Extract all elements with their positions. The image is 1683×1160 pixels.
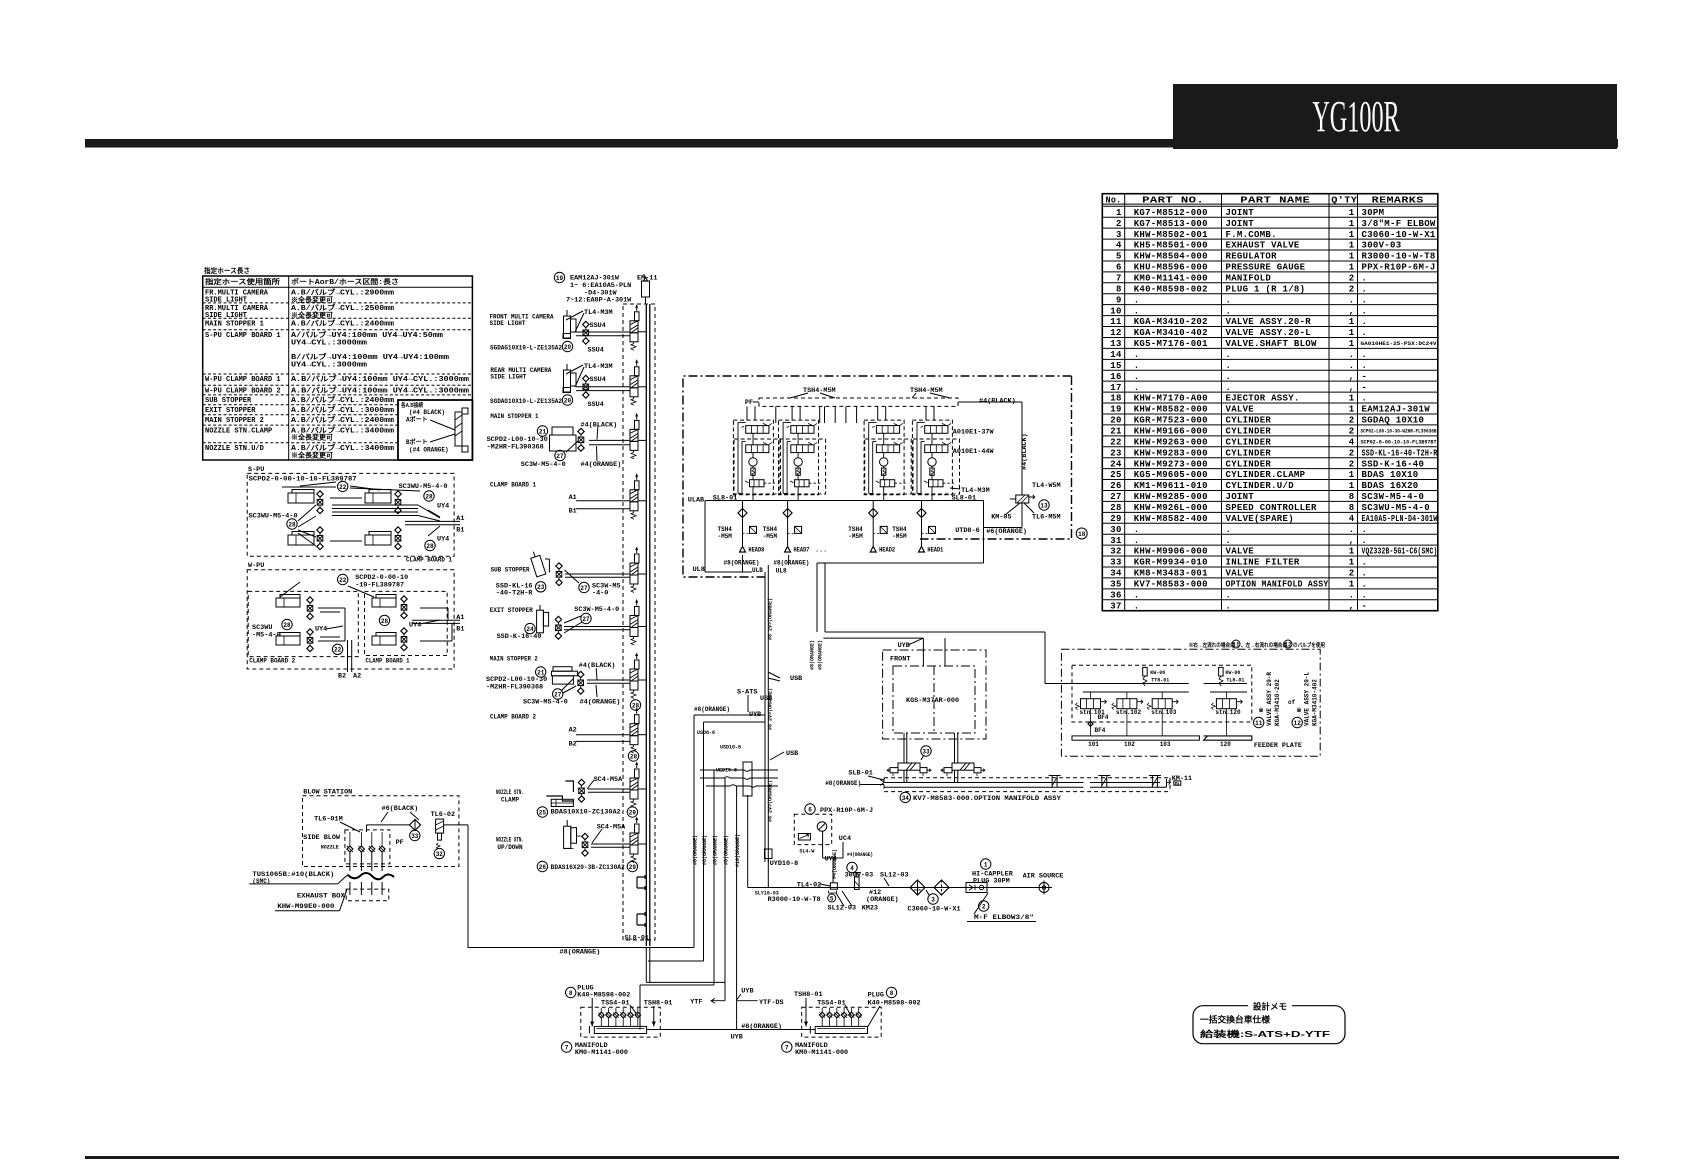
svg-text:KGA-M3410-402: KGA-M3410-402 <box>1312 679 1319 726</box>
filter 33 <box>410 819 421 830</box>
svg-text:.: . <box>1362 284 1368 294</box>
svg-text:CYLINDER: CYLINDER <box>1226 459 1272 469</box>
svg-text:A2: A2 <box>569 727 577 735</box>
svg-text:1: 1 <box>1349 470 1355 480</box>
svg-text:KG7-M8513-000: KG7-M8513-000 <box>1134 219 1208 229</box>
S-PU cylinders left <box>288 493 314 503</box>
svg-text:PPX-R10P-6M-J: PPX-R10P-6M-J <box>820 807 873 815</box>
svg-text:UP/DOWN: UP/DOWN <box>497 844 523 851</box>
svg-text:K40-M8598-002: K40-M8598-002 <box>577 991 630 999</box>
exhaust lines <box>349 852 351 871</box>
svg-text:UYB: UYB <box>741 988 753 996</box>
wire risers to manifolds <box>693 715 695 948</box>
svg-text:27: 27 <box>554 691 562 698</box>
svg-text:KHW-M9166-000: KHW-M9166-000 <box>1134 427 1208 437</box>
svg-text:.: . <box>1226 536 1232 546</box>
feeder valve stn.102 <box>1117 699 1137 709</box>
svg-text:指定ホース使用箇所: 指定ホース使用箇所 <box>205 277 280 286</box>
svg-text:#4(BLACK): #4(BLACK) <box>579 662 616 670</box>
svg-text:#8(ORANGE): #8(ORANGE) <box>810 640 816 670</box>
svg-text:ULB: ULB <box>752 567 763 574</box>
svg-text:25: 25 <box>539 809 547 816</box>
svg-text:CLAMP BOARD 1: CLAMP BOARD 1 <box>366 657 410 664</box>
svg-text:※右→左流れの場合は: ※右→左流れの場合は <box>1189 641 1235 649</box>
svg-text:34: 34 <box>1110 569 1122 579</box>
svg-text:20: 20 <box>1110 416 1121 426</box>
svg-text:KM23: KM23 <box>862 905 878 913</box>
svg-text:33: 33 <box>1110 558 1121 568</box>
svg-text:UYB: UYB <box>898 642 910 650</box>
svg-text:、左→右流れの場合は: 、左→右流れの場合は <box>1241 641 1287 649</box>
svg-text:SL8-01: SL8-01 <box>713 494 737 502</box>
svg-text:KGS-M37AR-000: KGS-M37AR-000 <box>906 697 959 705</box>
svg-text:28: 28 <box>283 622 291 629</box>
svg-text:Q'TY: Q'TY <box>1331 196 1357 206</box>
svg-text:TL6-02: TL6-02 <box>431 811 455 819</box>
svg-text:SC3WU-M5-4-0: SC3WU-M5-4-0 <box>1362 503 1430 513</box>
svg-text:32: 32 <box>1110 547 1121 557</box>
svg-text:.: . <box>1362 590 1368 600</box>
svg-text:B1: B1 <box>456 527 464 535</box>
svg-text:29: 29 <box>629 864 637 871</box>
svg-text:PPX-R10P-6M-J: PPX-R10P-6M-J <box>1362 263 1436 273</box>
svg-text:KV7-M8583-000: KV7-M8583-000 <box>1134 580 1208 590</box>
svg-text:-10-FL389787: -10-FL389787 <box>355 581 404 589</box>
M-F elbow label 2 <box>979 901 989 911</box>
svg-text:C3060-10-W-X1: C3060-10-W-X1 <box>1362 230 1436 240</box>
blank station stubs <box>637 875 645 890</box>
svg-text:.: . <box>1349 525 1355 535</box>
svg-text:3: 3 <box>931 896 935 903</box>
svg-text:-M2HR-FL390368: -M2HR-FL390368 <box>486 683 543 691</box>
svg-text:.: . <box>1362 394 1368 404</box>
svg-text:KGA-M3410-202: KGA-M3410-202 <box>1134 317 1208 327</box>
feeder inner dashed box <box>1072 665 1252 722</box>
svg-text:,: , <box>1349 372 1355 382</box>
pressure gauge box 6 <box>805 804 815 814</box>
svg-text:3: 3 <box>1116 230 1122 240</box>
feeder valve stn.101 <box>1081 699 1101 709</box>
svg-text:.: . <box>1134 601 1140 611</box>
svg-text:101: 101 <box>1088 741 1099 748</box>
head area dash-dot boundary <box>683 376 1072 577</box>
feeder bus <box>1072 683 1189 685</box>
svg-text:.: . <box>1362 569 1368 579</box>
svg-text:Aポート: Aポート <box>406 416 428 424</box>
svg-text:11: 11 <box>1232 641 1240 648</box>
svg-text:NOZZLE STN.CLAMP: NOZZLE STN.CLAMP <box>205 427 272 435</box>
svg-text:TL8-01: TL8-01 <box>1226 678 1244 684</box>
svg-text:※全長変更可: ※全長変更可 <box>291 450 333 459</box>
svg-text:TUS1065B:#10(BLACK): TUS1065B:#10(BLACK) <box>252 871 334 878</box>
svg-text:17: 17 <box>1110 383 1121 393</box>
svg-text:28: 28 <box>630 753 638 760</box>
svg-text:CYLINDER: CYLINDER <box>1226 416 1272 426</box>
svg-text:.: . <box>1226 306 1232 316</box>
svg-text:SGDAG10X10-L-ZE135A2: SGDAG10X10-L-ZE135A2 <box>490 398 562 405</box>
head valve group 2 <box>779 420 819 495</box>
svg-text:HEAD1: HEAD1 <box>927 547 943 554</box>
FRONT box <box>883 650 986 739</box>
svg-text:25: 25 <box>1110 470 1121 480</box>
svg-text:-M5M: -M5M <box>892 533 907 540</box>
A/B port legend inset <box>398 400 472 460</box>
svg-text:PLUG: PLUG <box>868 991 884 999</box>
valve station V-EXITSTP <box>630 616 638 628</box>
svg-text:KG5-M7176-001: KG5-M7176-001 <box>1134 339 1208 349</box>
svg-text:29: 29 <box>1110 514 1121 524</box>
svg-text:※全長変更可: ※全長変更可 <box>291 433 333 442</box>
svg-text:PF: PF <box>745 399 753 407</box>
svg-text:S-ATS: S-ATS <box>737 689 757 697</box>
svg-text:#4(BLACK): #4(BLACK) <box>581 422 618 430</box>
svg-text:#4(ORANGE): #4(ORANGE) <box>847 852 873 858</box>
svg-text:1: 1 <box>1349 230 1355 240</box>
svg-text:KHW-M8582-400: KHW-M8582-400 <box>1134 514 1208 524</box>
svg-text:KHW-M9263-000: KHW-M9263-000 <box>1134 437 1208 447</box>
svg-text:2: 2 <box>1349 448 1355 458</box>
svg-text:-40-T2H-R: -40-T2H-R <box>496 590 534 598</box>
svg-text:USD8-6: USD8-6 <box>697 730 715 736</box>
svg-text:.: . <box>1226 350 1232 360</box>
svg-text:1: 1 <box>1349 339 1355 349</box>
svg-text:-M5M: -M5M <box>763 533 778 540</box>
svg-text:#8(ORANGE): #8(ORANGE) <box>724 835 730 865</box>
svg-text:26: 26 <box>539 864 547 871</box>
svg-text:...: ... <box>815 547 827 555</box>
svg-text:KGA-M3410-402: KGA-M3410-402 <box>1134 328 1208 338</box>
exhaust valve 300V-03 <box>847 862 857 872</box>
svg-text:27: 27 <box>580 585 588 592</box>
svg-text:SGDAQ 10X10: SGDAQ 10X10 <box>1362 416 1425 426</box>
svg-text:1: 1 <box>1349 558 1355 568</box>
svg-text:11: 11 <box>1255 720 1263 727</box>
svg-text:A.B/バルブ→UY4:100mm UY4→CYL.:300: A.B/バルブ→UY4:100mm UY4→CYL.:3000mm <box>291 374 469 384</box>
svg-text:3/8"M-F ELBOW: 3/8"M-F ELBOW <box>1362 219 1436 229</box>
svg-text:BDAS 10X10: BDAS 10X10 <box>1362 470 1419 480</box>
svg-text:21: 21 <box>539 428 547 435</box>
svg-text:MAIN STOPPER 1: MAIN STOPPER 1 <box>490 413 538 420</box>
head valve group 1 <box>733 420 773 495</box>
svg-text:BF4: BF4 <box>1095 727 1106 734</box>
svg-text:TL6-01M: TL6-01M <box>314 815 343 823</box>
svg-text:VQZ332B-5G1-C6(SMC): VQZ332B-5G1-C6(SMC) <box>1362 547 1438 557</box>
svg-text:UY4: UY4 <box>409 622 421 630</box>
air source symbol <box>1039 883 1049 893</box>
lower distribution wires <box>468 947 695 949</box>
svg-text:30PM: 30PM <box>1362 208 1385 218</box>
svg-text:SSU4: SSU4 <box>588 401 604 409</box>
svg-text:B1: B1 <box>456 626 464 634</box>
svg-text:※全長変更可: ※全長変更可 <box>291 295 333 304</box>
valve station V-MAINSTP2 <box>630 669 638 681</box>
svg-text:#8(ORANGE): #8(ORANGE) <box>724 560 760 567</box>
svg-text:SL4-W: SL4-W <box>799 848 814 854</box>
svg-text:MAIN STOPPER 2: MAIN STOPPER 2 <box>205 417 264 425</box>
svg-text:YTF-DS: YTF-DS <box>759 999 783 1007</box>
svg-text:EXHAUST BOX: EXHAUST BOX <box>297 893 346 901</box>
svg-text:4: 4 <box>1349 437 1355 447</box>
svg-text:.: . <box>1226 590 1232 600</box>
svg-text:.: . <box>1349 590 1355 600</box>
valve station V-FRONTCAM <box>630 321 638 333</box>
svg-text:USB: USB <box>760 695 772 703</box>
svg-text:VALVE: VALVE <box>1226 569 1255 579</box>
svg-text:1: 1 <box>1349 547 1355 557</box>
svg-text:.: . <box>1226 601 1232 611</box>
hi-cappler plug <box>981 859 991 869</box>
manifold dashed outline <box>623 304 655 940</box>
svg-text:22: 22 <box>334 647 342 654</box>
svg-text:HEAD7: HEAD7 <box>794 547 810 554</box>
svg-text:CLAMP BOARD 1: CLAMP BOARD 1 <box>490 482 536 489</box>
svg-text:KW-06: KW-06 <box>1225 670 1240 676</box>
S-ATS riser bundle <box>764 572 766 862</box>
svg-text:TL4-02: TL4-02 <box>797 882 821 890</box>
svg-text:31: 31 <box>1110 536 1122 546</box>
svg-text:#10(ORANGE): #10(ORANGE) <box>735 834 741 867</box>
svg-text:FEEDER PLATE: FEEDER PLATE <box>1254 742 1302 749</box>
svg-text:BF4: BF4 <box>1098 714 1109 721</box>
svg-text:VALVE.SHAFT BLOW: VALVE.SHAFT BLOW <box>1226 339 1318 349</box>
svg-text:22: 22 <box>339 577 347 584</box>
KW-06 TT8-01 <box>1143 667 1148 676</box>
option manifold solid lines <box>1090 782 1160 784</box>
svg-text:#8(ORANGE): #8(ORANGE) <box>818 640 824 670</box>
svg-text:MAIN STOPPER 1: MAIN STOPPER 1 <box>205 321 264 329</box>
memo box <box>1193 1006 1345 1044</box>
feeder valve stn.103 <box>1152 699 1172 709</box>
svg-text:.: . <box>1226 295 1232 305</box>
svg-text:.: . <box>1134 306 1140 316</box>
svg-text:-4-0: -4-0 <box>592 590 608 598</box>
svg-text:UY4→CYL.:3000mm: UY4→CYL.:3000mm <box>291 362 367 370</box>
svg-text:.: . <box>1226 383 1232 393</box>
svg-text:CYLINDER.CLAMP: CYLINDER.CLAMP <box>1226 470 1306 480</box>
svg-text:35: 35 <box>1110 580 1121 590</box>
blow nozzle 3 <box>369 846 375 852</box>
svg-text:A.B/バルブ→CYL.:2400mm: A.B/バルブ→CYL.:2400mm <box>291 395 394 405</box>
svg-text:ポートAorB/ホース区間:長さ: ポートAorB/ホース区間:長さ <box>291 277 399 287</box>
svg-text:KGR-M7523-000: KGR-M7523-000 <box>1134 416 1208 426</box>
svg-text:W-PU CLAMP BOARD 1: W-PU CLAMP BOARD 1 <box>205 376 281 384</box>
svg-text:SCP02-L00-10-30-W2HR-FL39036B: SCP02-L00-10-30-W2HR-FL39036B <box>1361 429 1437 435</box>
svg-text:PF: PF <box>396 839 404 847</box>
svg-text:一括交換台車仕様: 一括交換台車仕様 <box>1200 1015 1270 1025</box>
svg-text:1: 1 <box>1349 263 1355 273</box>
svg-text:UL8: UL8 <box>776 568 787 575</box>
filter + HEAD8 <box>738 509 747 518</box>
title bar rule <box>85 139 1618 148</box>
svg-text:22: 22 <box>1110 437 1121 447</box>
svg-text:,: , <box>1349 601 1355 611</box>
svg-text:5: 5 <box>830 895 834 902</box>
svg-text:SSD-K-16-40: SSD-K-16-40 <box>497 633 542 641</box>
svg-text:SC3W-M5-4-0: SC3W-M5-4-0 <box>1362 492 1425 502</box>
svg-text:1: 1 <box>1349 208 1355 218</box>
svg-text:7~12:EA8P-A-301W: 7~12:EA8P-A-301W <box>566 297 632 305</box>
svg-text:※: ※ <box>1297 706 1302 714</box>
svg-text:.: . <box>1134 295 1140 305</box>
svg-text:4: 4 <box>1116 241 1122 251</box>
svg-text:KHU-M8596-000: KHU-M8596-000 <box>1134 263 1208 273</box>
air source main line <box>748 887 1038 889</box>
svg-text:of: of <box>1288 699 1296 706</box>
svg-text:28: 28 <box>1110 503 1121 513</box>
svg-text:#8(ORANGE): #8(ORANGE) <box>702 835 708 865</box>
svg-text:SSU4: SSU4 <box>590 322 606 330</box>
svg-text:UL8: UL8 <box>693 566 705 574</box>
svg-text:EXHAUST VALVE: EXHAUST VALVE <box>1226 241 1300 251</box>
svg-text:1: 1 <box>1349 219 1355 229</box>
svg-text:15: 15 <box>1110 361 1121 371</box>
svg-text:33: 33 <box>411 833 419 840</box>
svg-text:11: 11 <box>1110 317 1122 327</box>
feeder assy outer dashed box <box>1061 649 1320 756</box>
svg-text:SSU4: SSU4 <box>588 347 604 355</box>
svg-text:YG100R: YG100R <box>1312 91 1400 141</box>
svg-text:120: 120 <box>1220 741 1231 748</box>
svg-text:32: 32 <box>436 851 444 858</box>
svg-text:.: . <box>1134 383 1140 393</box>
svg-text:SIDE LIGHT: SIDE LIGHT <box>490 374 526 381</box>
crossing bus <box>743 762 752 796</box>
svg-text:.: . <box>1134 590 1140 600</box>
svg-text:-: - <box>1362 372 1368 382</box>
svg-text:CLAMP BOARD 1: CLAMP BOARD 1 <box>406 557 452 564</box>
bottom rule <box>85 1156 1619 1159</box>
svg-text:34: 34 <box>902 795 910 802</box>
svg-text:#8(ORANGE): #8(ORANGE) <box>825 780 861 787</box>
svg-text:JOINT: JOINT <box>1226 492 1255 502</box>
svg-text:.: . <box>1134 536 1140 546</box>
svg-text:1: 1 <box>1349 580 1355 590</box>
svg-text:23: 23 <box>537 584 545 591</box>
svg-text:103: 103 <box>1160 741 1171 748</box>
svg-text:-: - <box>1362 383 1368 393</box>
svg-text:A010E1-44W: A010E1-44W <box>953 448 995 456</box>
svg-text:A2: A2 <box>353 673 361 681</box>
svg-text:#8(ORANGE): #8(ORANGE) <box>713 835 719 865</box>
svg-text:27: 27 <box>556 453 564 460</box>
svg-text:SPEED CONTROLLER: SPEED CONTROLLER <box>1226 503 1318 513</box>
ejector assembly label 19 <box>554 272 564 282</box>
svg-text:KM8-M3483-001: KM8-M3483-001 <box>1134 569 1208 579</box>
svg-text:-M2HR-FL390368: -M2HR-FL390368 <box>487 444 544 452</box>
svg-text:USB: USB <box>790 675 802 683</box>
svg-text:13: 13 <box>1040 502 1048 509</box>
svg-text:KHW-M926L-000: KHW-M926L-000 <box>1134 503 1208 513</box>
svg-text:給装機:S-ATS+D-YTF: 給装機:S-ATS+D-YTF <box>1200 1029 1330 1039</box>
svg-text:A010E1-37W: A010E1-37W <box>953 429 995 437</box>
svg-text:KHW-M8504-000: KHW-M8504-000 <box>1134 252 1208 262</box>
svg-text:#6(BLACK): #6(BLACK) <box>382 805 419 813</box>
svg-text:.: . <box>1362 525 1368 535</box>
svg-text:CYLINDER: CYLINDER <box>1226 437 1272 447</box>
svg-text:7: 7 <box>1116 273 1122 283</box>
svg-text:TSH8-01: TSH8-01 <box>794 991 823 999</box>
svg-text:#8 2V>(ORANGE): #8 2V>(ORANGE) <box>768 598 774 640</box>
svg-text:CYLINDER.U/D: CYLINDER.U/D <box>1226 481 1295 491</box>
svg-text:2: 2 <box>1349 273 1355 283</box>
svg-text:1: 1 <box>1349 481 1355 491</box>
svg-text:.: . <box>1349 361 1355 371</box>
feeder plate <box>1072 736 1199 740</box>
svg-text:,: , <box>1349 536 1355 546</box>
svg-text:YTF: YTF <box>690 998 702 1006</box>
svg-text:NOZZLE STN.: NOZZLE STN. <box>496 789 524 796</box>
svg-text:UC4: UC4 <box>839 835 851 843</box>
svg-text:PART NO.: PART NO. <box>1142 196 1204 206</box>
filter + HEAD7 <box>783 509 792 518</box>
svg-text:SSU4: SSU4 <box>590 376 606 384</box>
svg-text:B2: B2 <box>338 673 346 681</box>
svg-text:W-PU: W-PU <box>248 562 264 570</box>
svg-text:.: . <box>1362 317 1368 327</box>
svg-text:8: 8 <box>1116 284 1122 294</box>
svg-text:12: 12 <box>1284 641 1292 648</box>
svg-text:KH5-M8501-000: KH5-M8501-000 <box>1134 241 1208 251</box>
svg-text:20: 20 <box>564 344 572 351</box>
svg-text:TSH4-M5M: TSH4-M5M <box>803 387 836 395</box>
svg-text:K40-M8598-002: K40-M8598-002 <box>1134 284 1208 294</box>
blow nozzle 4 <box>379 846 385 852</box>
svg-text:12: 12 <box>1294 720 1302 727</box>
svg-text:SCP02-0-00-10-10-FL3B97BT: SCP02-0-00-10-10-FL3B97BT <box>1361 439 1437 445</box>
svg-text:KM0-M1141-000: KM0-M1141-000 <box>795 1049 848 1057</box>
svg-text:A.B/バルブ→UY4:100mm UY4→CYL.:300: A.B/バルブ→UY4:100mm UY4→CYL.:3000mm <box>291 386 469 396</box>
svg-text:9: 9 <box>1116 295 1122 305</box>
svg-text:.: . <box>1362 350 1368 360</box>
svg-text:300V-03: 300V-03 <box>1362 241 1402 251</box>
svg-text:18: 18 <box>1110 394 1121 404</box>
svg-text:KG7-M8512-000: KG7-M8512-000 <box>1134 208 1208 218</box>
S-PU cylinders right <box>365 493 391 503</box>
svg-text:HEAD8: HEAD8 <box>748 547 764 554</box>
svg-text:のバルブを使用: のバルブを使用 <box>1293 641 1325 649</box>
svg-text:8: 8 <box>890 990 894 997</box>
svg-text:KM1-M9611-010: KM1-M9611-010 <box>1134 481 1208 491</box>
svg-text:AIR SOURCE: AIR SOURCE <box>1023 873 1064 881</box>
svg-text:GA010HE1-25-PSX:DC24V: GA010HE1-25-PSX:DC24V <box>1361 341 1437 347</box>
svg-text:SSD-KL-16-40-T2H-R: SSD-KL-16-40-T2H-R <box>1362 448 1438 458</box>
svg-text:29: 29 <box>629 809 637 816</box>
svg-text:#4(ORANGE): #4(ORANGE) <box>581 461 622 469</box>
svg-text:37: 37 <box>1110 601 1121 611</box>
svg-text:BDAS16X20-3B-ZC130A2: BDAS16X20-3B-ZC130A2 <box>551 864 625 871</box>
svg-text:※: ※ <box>1259 706 1264 714</box>
svg-text:SGDAG10X10-L-ZE135A2: SGDAG10X10-L-ZE135A2 <box>490 345 562 352</box>
svg-text:FRONT: FRONT <box>890 656 910 664</box>
svg-text:CYLINDER: CYLINDER <box>1226 448 1272 458</box>
svg-text:UYD10-8: UYD10-8 <box>770 860 799 868</box>
KGS-M37AR-000 inner box <box>893 666 975 733</box>
svg-text:ULAB: ULAB <box>688 497 704 505</box>
svg-text:SC3WU-M5-4-0: SC3WU-M5-4-0 <box>399 483 448 491</box>
valve station V-MAINSTP1 <box>630 429 638 441</box>
svg-text:19: 19 <box>556 275 564 282</box>
svg-text:1: 1 <box>1116 208 1122 218</box>
svg-text:27: 27 <box>582 616 590 623</box>
option manifold feed lines <box>884 782 1083 784</box>
svg-text:SUB STOPPER: SUB STOPPER <box>205 397 252 405</box>
svg-text:K40-M8598-002: K40-M8598-002 <box>868 999 921 1007</box>
svg-text:2: 2 <box>1349 284 1355 294</box>
svg-text:KHW-M9273-000: KHW-M9273-000 <box>1134 459 1208 469</box>
feeder valve stn.120 <box>1216 699 1236 709</box>
svg-text:.: . <box>1349 295 1355 305</box>
svg-text:A.B/バルブ→CYL.:2400mm: A.B/バルブ→CYL.:2400mm <box>291 415 394 425</box>
